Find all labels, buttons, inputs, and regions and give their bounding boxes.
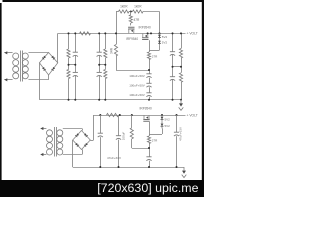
zener diode D1 [159, 33, 161, 39]
transistor Q1 pass MOSFET [128, 26, 134, 28]
svg-text:100uF+50V: 100uF+50V [129, 74, 145, 78]
transistor Q3 MOSFET [143, 120, 149, 122]
capacitor C12 electrolytic [146, 156, 151, 158]
resistor R9 on bias column [114, 45, 117, 57]
wire T2 secondary bottom lead [63, 154, 82, 156]
wire left AC lead bottom [4, 79, 12, 81]
svg-text:34R: 34R [110, 47, 114, 54]
capacitor C10 [100, 115, 102, 133]
wire T1 secondary top lead [28, 52, 48, 54]
wire left AC lead top [4, 52, 12, 54]
transformer T1 secondary winding [22, 53, 28, 59]
svg-text:27R: 27R [152, 139, 158, 143]
capacitor C3 [99, 33, 101, 52]
resistor R4 filter bleeder top [68, 33, 70, 49]
svg-text:+ VOLT: + VOLT [187, 113, 198, 117]
wire AC lead bottom (bottom circuit) [41, 154, 47, 156]
ground symbol bottom circuit [183, 167, 185, 172]
wire bottom circuit return rail [73, 167, 184, 169]
resistor R11 [181, 33, 183, 48]
zener diode D2 [159, 39, 161, 45]
capacitor C7 electrolytic [146, 92, 151, 94]
junction dots output columns [172, 32, 174, 34]
zener diode D3 [161, 115, 163, 122]
AC input arrow bottom [4, 78, 7, 81]
wire BR1 negative output to bottom rail [39, 63, 41, 100]
junction dots group B [98, 32, 100, 34]
wire BR2 negative to bottom rail [72, 140, 74, 167]
wire mid node group B [99, 64, 105, 66]
resistor R13 rail series [107, 113, 119, 116]
resistor R12 [181, 67, 183, 73]
resistor R14 gate feed [131, 115, 133, 128]
svg-text:+ VOLT: + VOLT [187, 32, 198, 36]
transformer T2 primary winding [47, 130, 53, 136]
wire bottom return rail [39, 99, 181, 101]
wire mid node group A [69, 64, 76, 66]
capacitor C4 [99, 65, 101, 73]
resistor R2 [133, 10, 144, 13]
resistor R3 gate [130, 12, 132, 15]
wire R15 to C12 [149, 144, 151, 157]
capacitor C2 [75, 65, 77, 73]
junction dot stack top [148, 69, 150, 71]
svg-text:5V2: 5V2 [162, 35, 168, 39]
capacitor C1 [75, 33, 77, 52]
svg-text:IRF9540: IRF9540 [126, 37, 138, 41]
svg-text:47uF+63V: 47uF+63V [179, 127, 183, 141]
wire gate feedback horizontal [116, 70, 149, 72]
wire T1 secondary bottom lead [28, 79, 48, 81]
transformer T1 primary winding [13, 53, 19, 59]
junction dots group A [68, 32, 70, 34]
svg-text:5V2: 5V2 [165, 124, 171, 128]
junction dot R1/R2 node [130, 11, 132, 13]
resistor R1 [119, 10, 130, 13]
svg-text:47R: 47R [134, 18, 141, 22]
wire zener bottom [162, 128, 164, 134]
bridge rectifier BR1 [39, 53, 57, 76]
transformer T1 core [20, 51, 22, 82]
wire BR2 positive to rail [90, 140, 93, 142]
border frame right [202, 0, 204, 197]
transformer T2 core [54, 127, 56, 157]
wire top bias rail [116, 11, 119, 13]
junction dot bias column on rail [115, 32, 117, 34]
junction dot stack bottom [148, 99, 150, 101]
bridge rectifier BR2 [73, 131, 91, 150]
junction dot zener top [159, 32, 161, 34]
resistor R7 [105, 33, 107, 49]
wire R10 to cap stack [149, 60, 151, 74]
wire zener bottom jog [159, 45, 161, 50]
AC arrow bottom (bottom circuit) [40, 153, 43, 156]
svg-text:IRF9540: IRF9540 [139, 25, 151, 29]
resistor R15 27R [147, 136, 150, 144]
svg-text:5V2: 5V2 [162, 41, 168, 45]
svg-text:[720x630] upic.me: [720x630] upic.me [97, 181, 198, 195]
resistor R5 filter bleeder bottom [68, 65, 70, 70]
watermark bar [0, 180, 204, 197]
capacitor C9 [172, 67, 174, 77]
zener diode D4 [161, 122, 163, 129]
ground symbol top circuit [180, 100, 182, 105]
svg-text:100uF+50V: 100uF+50V [129, 84, 145, 88]
junction dots bottom rail [99, 166, 101, 168]
svg-text:100uF: 100uF [121, 132, 125, 141]
svg-text:1k0R: 1k0R [120, 4, 128, 8]
junction dot R14 node [148, 147, 150, 149]
wire bottom circuit positive rail [94, 115, 186, 117]
capacitor C13 output [176, 115, 178, 132]
transformer T2 secondary winding [57, 130, 63, 136]
wire Q3 output down [149, 122, 151, 136]
svg-text:27R: 27R [152, 55, 158, 59]
svg-text:47uF+63V: 47uF+63V [107, 156, 121, 160]
capacitor C11 electrolytic [118, 115, 120, 136]
wire zener feed corner [159, 12, 161, 34]
wire mid node output columns [173, 66, 182, 68]
border frame top [3, 0, 205, 2]
junction dots rail bottom circuit [99, 114, 101, 116]
wire BR1 positive output to top rail [57, 33, 59, 62]
wire Q2 output down [149, 40, 151, 52]
svg-text:IRF9540: IRF9540 [140, 106, 152, 110]
wire top positive rail [58, 33, 186, 35]
wire AC lead top (bottom circuit) [41, 128, 47, 130]
resistor R8 [105, 65, 107, 70]
capacitor C5 electrolytic [146, 73, 151, 75]
capacitor C8 [172, 33, 174, 51]
border frame left [0, 3, 2, 197]
resistor R6 rail series [80, 32, 91, 35]
AC input arrow top [4, 51, 7, 54]
svg-text:1k0R: 1k0R [134, 4, 142, 8]
svg-text:5V2: 5V2 [165, 117, 171, 121]
AC arrow top (bottom circuit) [40, 127, 43, 130]
capacitor C6 electrolytic [146, 82, 151, 84]
resistor R10 27R [147, 52, 150, 60]
wire bias feed vertical [116, 12, 118, 45]
svg-text:100uF+50V: 100uF+50V [129, 93, 145, 97]
transistor Q2 MOSFET [142, 39, 148, 41]
wire T2 secondary top lead [63, 128, 82, 130]
